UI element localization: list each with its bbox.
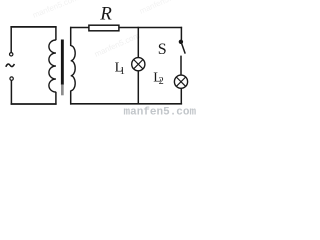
wire: switch bottom contact to lamp L2 bbox=[180, 56, 182, 76]
label L2 bbox=[153, 70, 164, 87]
lamp L1 bbox=[132, 58, 145, 71]
wire: primary loop top bbox=[10, 26, 56, 28]
transformer core bar (grey lower part) bbox=[61, 85, 64, 96]
wire: lamp L1 bottom lead bbox=[137, 71, 139, 105]
wire: secondary coil top lead bbox=[70, 27, 72, 46]
switch S lever bbox=[182, 43, 186, 54]
lamp L2 bbox=[174, 75, 187, 88]
svg-text:2: 2 bbox=[159, 76, 164, 87]
resistor R (box) bbox=[89, 25, 119, 31]
svg-text:manfen5.com: manfen5.com bbox=[124, 107, 197, 117]
wire: lamp L1 top lead bbox=[137, 27, 139, 58]
wire: lamp L2 bottom lead bbox=[180, 88, 182, 104]
AC source terminal: bottom circle bbox=[10, 77, 13, 80]
wire: secondary loop top, coil to resistor bbox=[70, 27, 89, 29]
wire: primary coil bottom lead bbox=[55, 92, 57, 105]
transformer secondary winding (3 turns) bbox=[71, 46, 75, 91]
svg-text:R: R bbox=[99, 3, 112, 24]
svg-text:1: 1 bbox=[120, 66, 125, 77]
wire: primary loop bottom bbox=[11, 103, 57, 105]
AC source ~ symbol bbox=[6, 64, 15, 67]
wire: primary loop left lower bbox=[10, 80, 12, 104]
transformer primary winding (4 turns) bbox=[49, 40, 56, 92]
switch S pivot dot bbox=[179, 40, 183, 44]
svg-text:S: S bbox=[158, 41, 167, 58]
transformer core bar (black) bbox=[61, 40, 64, 85]
wire: secondary loop top, resistor to switch corner bbox=[119, 27, 182, 29]
AC source terminal: top circle bbox=[10, 53, 13, 56]
wire: primary coil top lead bbox=[55, 26, 57, 40]
wire: secondary coil bottom lead bbox=[70, 91, 72, 105]
wire: secondary loop bottom bbox=[70, 103, 182, 105]
wire: primary loop left upper bbox=[10, 26, 12, 52]
wire: switch top lead bbox=[180, 27, 182, 40]
label L1 bbox=[115, 61, 125, 78]
